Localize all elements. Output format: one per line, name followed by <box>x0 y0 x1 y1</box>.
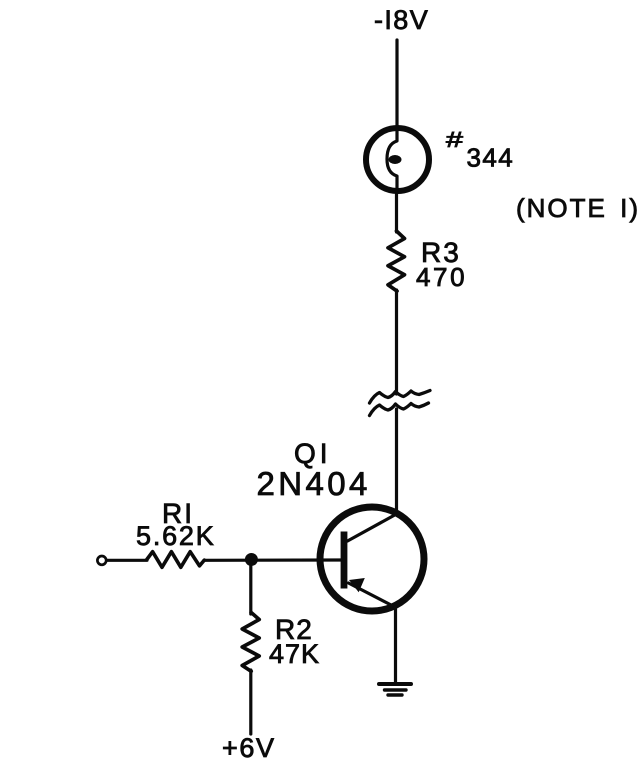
svg-text:2N404: 2N404 <box>257 465 371 502</box>
svg-text:(NOTE I): (NOTE I) <box>516 193 639 223</box>
svg-text:-I8V: -I8V <box>374 5 429 35</box>
svg-text:#: # <box>446 127 464 152</box>
svg-text:47K: 47K <box>269 639 320 669</box>
svg-text:470: 470 <box>416 262 467 292</box>
svg-text:5.62K: 5.62K <box>136 521 216 551</box>
svg-text:344: 344 <box>467 143 515 173</box>
svg-text:+6V: +6V <box>222 733 276 763</box>
